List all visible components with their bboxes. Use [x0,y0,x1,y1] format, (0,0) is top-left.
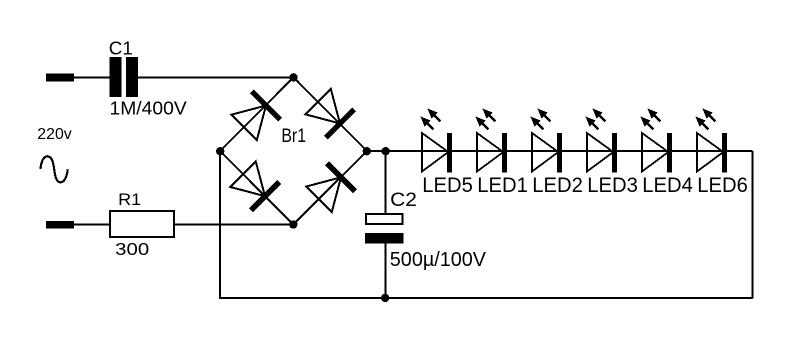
node top (AC1) [289,73,297,81]
wire C2 top lead [385,151,387,214]
wire C1 to bridge top node [138,77,294,79]
svg-text:C2: C2 [390,190,417,211]
capacitor C1 [110,57,139,97]
wire terminal to C1 [62,77,110,79]
sine symbol (AC source) [40,156,67,182]
svg-text:LED4: LED4 [642,173,693,197]
svg-text:LED1: LED1 [477,173,528,197]
terminal top-left [46,74,74,82]
diode D1 (bridge top-left) [231,91,280,140]
diode D2 (bridge top-right) [305,89,354,138]
led LED5 [420,108,452,172]
wire bridge edge top-left [220,77,294,151]
svg-text:LED3: LED3 [587,173,638,197]
capacitor C2 [365,214,404,244]
svg-text:500µ/100V: 500µ/100V [390,249,487,271]
resistor R1 [110,211,174,237]
svg-text:LED5: LED5 [422,173,473,197]
node right (DC+) [363,147,371,155]
svg-text:R1: R1 [118,191,141,209]
diode D4 (bridge bottom-right) [306,163,355,212]
wire bridge edge top-right [294,77,368,151]
node C2 bottom [381,294,389,302]
svg-text:300: 300 [115,239,149,259]
wire terminal to R1 [62,224,110,226]
svg-text:LED6: LED6 [697,173,748,197]
svg-text:LED2: LED2 [532,173,583,197]
svg-text:C1: C1 [109,38,133,58]
wire DC+ rail to C2 node [367,150,753,152]
wire left vertical (DC- down) [219,151,221,298]
svg-text:220v: 220v [37,126,71,143]
node left (DC-) [216,147,224,155]
led LED1 [475,108,507,172]
node C2 top [381,147,389,155]
wire R1 to bridge bottom node [174,224,293,226]
wire bottom rail [219,297,752,299]
led LED3 [585,108,617,172]
wire C2 bottom lead [385,244,387,298]
terminal bottom-left [46,221,74,229]
diode D3 (bridge bottom-left) [230,162,279,211]
led LED2 [530,108,562,172]
node bottom (AC2) [289,220,297,228]
wire bridge edge bottom-right [293,151,367,225]
svg-text:1M/400V: 1M/400V [110,97,188,118]
led LED6 [695,108,727,172]
wire right vertical [752,151,754,299]
wire bridge edge bottom-left [220,151,293,225]
svg-text:Br1: Br1 [281,125,306,147]
led LED4 [640,108,672,172]
